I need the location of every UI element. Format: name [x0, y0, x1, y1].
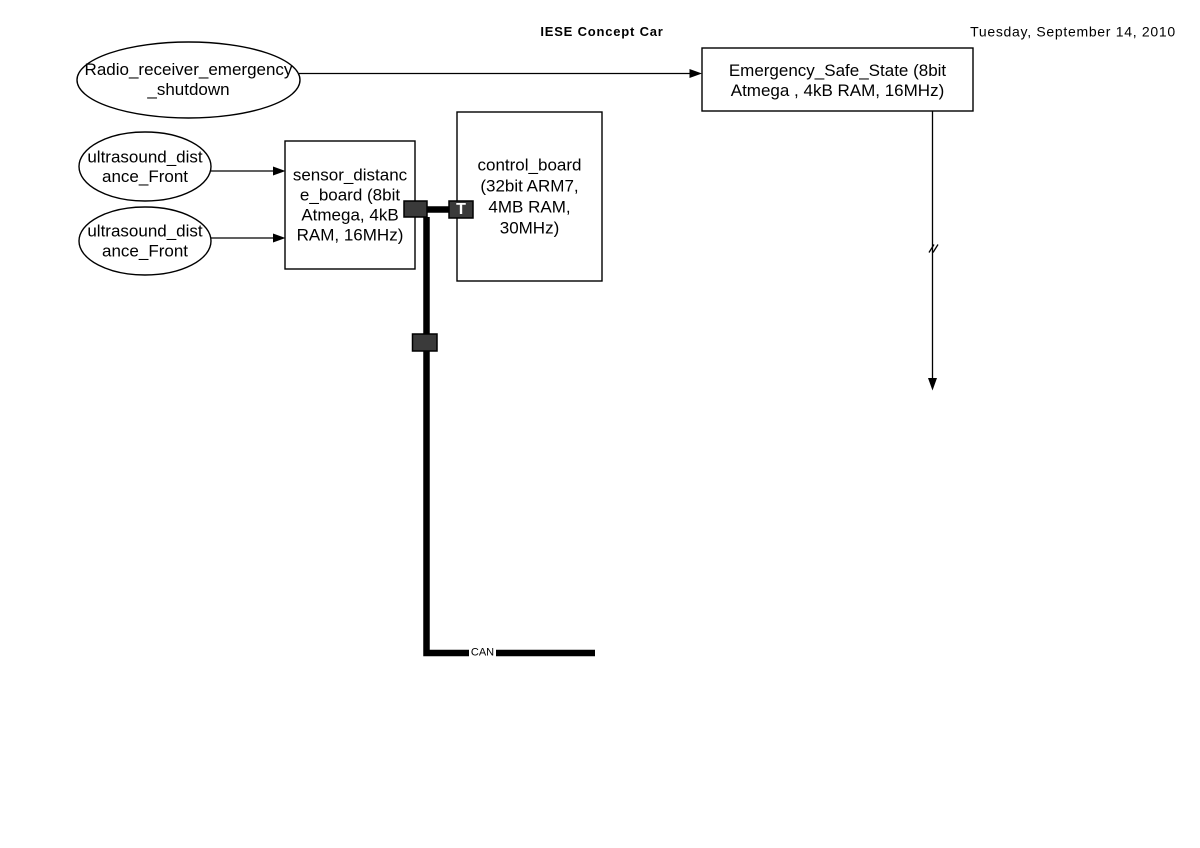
wire CAN bus vertical and bottom run	[427, 217, 596, 653]
svg-text:control_board: control_board	[478, 156, 582, 175]
svg-text:CAN: CAN	[471, 647, 494, 659]
title IESE Concept Car	[540, 24, 663, 39]
svg-text:T: T	[456, 201, 466, 218]
svg-text:Radio_receiver_emergency: Radio_receiver_emergency	[85, 60, 293, 79]
block Emergency_Safe_State	[702, 48, 973, 111]
svg-text:ultrasound_dist: ultrasound_dist	[87, 148, 203, 167]
svg-text:IESE Concept Car: IESE Concept Car	[540, 24, 663, 39]
svg-text:Atmega, 4kB: Atmega, 4kB	[301, 206, 398, 225]
svg-text:Atmega , 4kB RAM, 16MHz): Atmega , 4kB RAM, 16MHz)	[731, 81, 945, 100]
block sensor_distance_board	[285, 141, 415, 269]
block control_board	[457, 112, 602, 281]
wire ultrasound 2 to sensor_distance_board	[211, 234, 286, 243]
node Radio_receiver_emergency_shutdown	[77, 42, 300, 118]
wire emergency shutdown to Emergency_Safe_State	[299, 69, 702, 78]
svg-text:e_board (8bit: e_board (8bit	[300, 186, 400, 205]
svg-text:Tuesday, September 14, 2010: Tuesday, September 14, 2010	[970, 24, 1176, 40]
svg-text:ance_Front: ance_Front	[102, 242, 188, 261]
svg-text:sensor_distanc: sensor_distanc	[293, 166, 408, 185]
wire CAN bus tap to T connector	[425, 206, 451, 213]
node ultrasound_distance_Front 1	[79, 132, 211, 201]
date label	[970, 24, 1176, 40]
label CAN	[469, 646, 496, 659]
junction CAN at sensor_board_steering	[413, 334, 438, 351]
svg-text:Emergency_Safe_State (8bit: Emergency_Safe_State (8bit	[729, 61, 947, 80]
wire ultrasound 1 to sensor_distance_board	[211, 167, 286, 176]
svg-text:(32bit ARM7,: (32bit ARM7,	[480, 177, 578, 196]
svg-text:4MB RAM,: 4MB RAM,	[488, 198, 570, 217]
wire Emergency_Safe_State to Switch	[928, 111, 938, 391]
svg-text:_shutdown: _shutdown	[146, 80, 229, 99]
junction CAN at sensor_distance_board	[404, 201, 427, 217]
node ultrasound_distance_Front 2	[79, 207, 211, 275]
svg-text:ance_Front: ance_Front	[102, 167, 188, 186]
connector T1	[449, 201, 473, 218]
svg-text:ultrasound_dist: ultrasound_dist	[87, 222, 203, 241]
svg-text:RAM, 16MHz): RAM, 16MHz)	[297, 226, 404, 245]
svg-text:30MHz): 30MHz)	[500, 219, 560, 238]
